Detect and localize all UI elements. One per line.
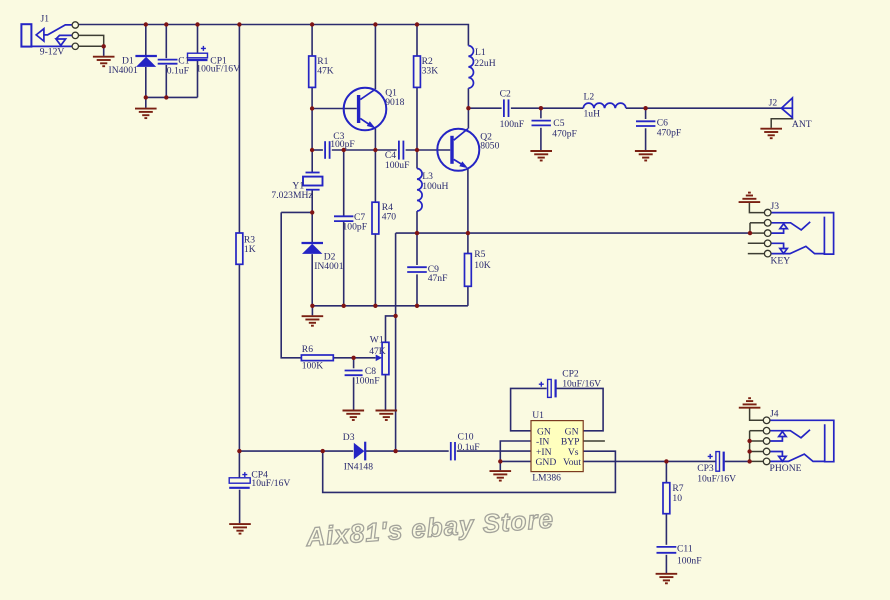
svg-text:L1: L1 [475,47,486,58]
svg-text:J1: J1 [41,14,50,25]
svg-text:10K: 10K [474,260,491,271]
svg-text:W1: W1 [370,335,384,346]
svg-text:47nF: 47nF [428,273,448,284]
svg-text:10uF/16V: 10uF/16V [251,478,290,489]
svg-text:100nF: 100nF [500,119,525,130]
svg-text:100uF: 100uF [385,160,410,171]
svg-text:100uF/16V: 100uF/16V [196,64,240,75]
svg-text:33K: 33K [422,65,439,76]
svg-text:10: 10 [672,493,682,504]
svg-text:PHONE: PHONE [770,463,802,474]
svg-text:ANT: ANT [792,119,812,130]
svg-text:C5: C5 [553,118,564,129]
svg-text:J4: J4 [770,408,779,419]
svg-text:C11: C11 [677,544,693,555]
svg-text:9018: 9018 [385,97,404,108]
svg-text:8050: 8050 [480,140,499,151]
svg-text:100uH: 100uH [422,181,448,192]
svg-text:100pF: 100pF [343,221,368,232]
svg-text:0.1uF: 0.1uF [167,65,189,76]
svg-text:C2: C2 [500,88,511,99]
svg-text:J3: J3 [771,201,780,212]
svg-text:C4: C4 [385,150,396,161]
svg-text:9-12V: 9-12V [40,46,65,57]
svg-text:100nF: 100nF [677,555,702,566]
svg-text:1K: 1K [244,244,256,255]
svg-text:IN4001: IN4001 [109,65,139,76]
svg-text:7.023MHz: 7.023MHz [271,190,312,201]
svg-text:470pF: 470pF [552,129,577,140]
svg-text:R5: R5 [474,249,485,260]
svg-text:D3: D3 [343,432,355,443]
svg-text:47K: 47K [317,65,334,76]
svg-text:10uF/16V: 10uF/16V [697,474,736,485]
svg-text:470: 470 [382,212,397,223]
svg-text:10uF/16V: 10uF/16V [562,379,601,390]
svg-text:Aix81's ebay Store: Aix81's ebay Store [304,503,555,552]
svg-text:IN4148: IN4148 [344,461,374,472]
svg-text:22uH: 22uH [474,58,495,69]
svg-text:47K: 47K [369,346,386,357]
svg-text:100pF: 100pF [330,139,355,150]
svg-text:J2: J2 [769,97,778,108]
svg-text:LM386: LM386 [532,473,561,484]
svg-text:GND: GND [536,457,557,468]
svg-text:100nF: 100nF [355,376,380,387]
svg-text:470pF: 470pF [657,127,682,138]
svg-text:0.1uF: 0.1uF [458,442,480,453]
svg-text:C10: C10 [458,432,474,443]
svg-text:KEY: KEY [771,256,791,267]
svg-text:U1: U1 [532,410,544,421]
svg-text:100K: 100K [302,361,323,372]
svg-text:L2: L2 [584,92,595,103]
svg-text:R6: R6 [302,344,313,355]
svg-text:Vout: Vout [563,457,581,468]
svg-text:1uH: 1uH [584,108,601,119]
svg-text:IN4001: IN4001 [314,261,344,272]
svg-text:CP3: CP3 [697,463,714,474]
